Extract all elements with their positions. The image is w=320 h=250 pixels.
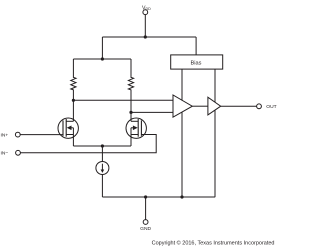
node VDD terminal [143, 10, 148, 15]
wire VDD rail [102, 36, 196, 38]
wire IN+ to gate Q1 [20, 134, 63, 136]
svg-text:VDD: VDD [142, 5, 151, 11]
junction amp1 ground [180, 195, 183, 198]
node GND terminal [143, 220, 148, 225]
wire rail to bias [195, 37, 197, 55]
resistor left load [71, 59, 76, 100]
svg-text:GND: GND [140, 226, 151, 232]
wire amp1 ground [181, 112, 183, 197]
junction VDD rail [144, 35, 147, 38]
wire bias to amp1 [181, 69, 183, 101]
wire rail left drop [101, 37, 103, 59]
wire stage link [192, 105, 208, 107]
resistor right load [128, 59, 133, 112]
wire Q2 drain down [130, 112, 132, 121]
wire tail to current source [101, 146, 103, 162]
wire amp2 ground [214, 110, 216, 197]
svg-text:Bias: Bias [191, 61, 202, 67]
svg-text:OUT: OUT [266, 104, 276, 110]
wire output [221, 105, 257, 107]
wire current source to ground rail [101, 175, 103, 198]
junction tail [101, 144, 104, 147]
op-amp A1 first stage [173, 95, 192, 117]
current source tail [96, 162, 109, 175]
junction resistor rail [101, 57, 104, 60]
junction right drain [129, 111, 132, 114]
bias block [171, 55, 223, 69]
wire resistor rail [73, 58, 131, 60]
wire ground rail [102, 196, 215, 198]
node OUT terminal [257, 104, 262, 109]
wire GND tap down [145, 197, 147, 220]
wire Q1 source down [72, 135, 74, 147]
node IN- terminal [16, 150, 21, 155]
transistor Q1 left input MOSFET [58, 118, 78, 138]
node IN+ terminal [15, 132, 20, 137]
junction left drain [72, 99, 75, 102]
transistor Q2 right input MOSFET [126, 118, 146, 138]
wire left drain to amp input [73, 99, 173, 101]
wire VDD down [144, 15, 146, 37]
wire source rail [73, 145, 131, 147]
svg-text:IN−: IN− [1, 151, 9, 157]
wire left drain down [72, 100, 74, 121]
wire Q2 source down [130, 135, 132, 147]
svg-text:IN+: IN+ [1, 132, 9, 138]
wire bias to amp2 [214, 69, 216, 102]
wire IN- route to gate Q2 [20, 135, 156, 153]
buffer A2 output stage [208, 97, 221, 115]
svg-text:Copyright © 2016, Texas Instru: Copyright © 2016, Texas Instruments Inco… [152, 240, 275, 247]
junction GND tap [144, 195, 147, 198]
wire right drain to amp input [131, 111, 173, 113]
